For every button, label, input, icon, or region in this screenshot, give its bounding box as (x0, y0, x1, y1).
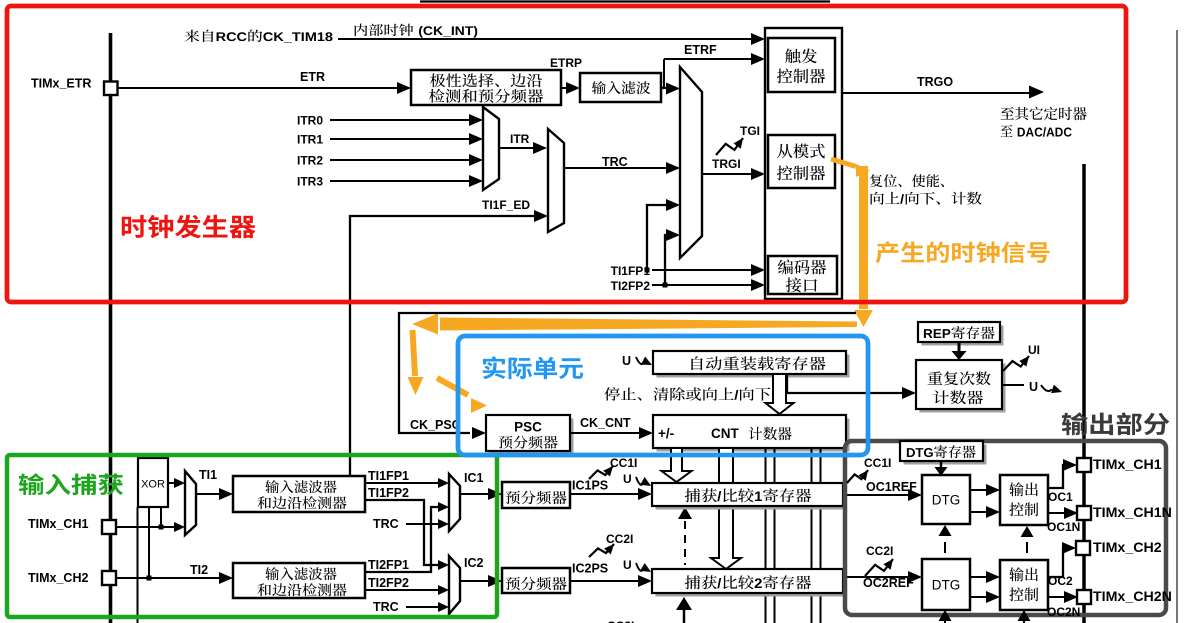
wire TI2FP2 top (652, 284, 753, 286)
box capture/compare 2 (656, 573, 847, 597)
svg-text:OC2REF: OC2REF (863, 576, 914, 590)
box input filter edge detector 2 (233, 563, 365, 598)
wire ETR (117, 87, 399, 89)
hollow bus CNT to capture2 (711, 448, 741, 569)
wire TI1FP1 (365, 482, 438, 484)
text REP register (924, 326, 995, 339)
wire OC2 out (1048, 548, 1066, 577)
blue box actual unit (458, 336, 868, 455)
wire ITR2 (330, 159, 470, 161)
orange arrow down small (413, 330, 416, 376)
box XOR (138, 458, 168, 507)
mux ITR (483, 107, 499, 190)
svg-text:IC1: IC1 (464, 471, 484, 485)
zigzag CC1I right (847, 470, 868, 483)
svg-text:TI2FP2: TI2FP2 (368, 576, 409, 590)
svg-text:OC2N: OC2N (1047, 605, 1080, 619)
wire TI1 (196, 493, 221, 495)
dashed capture arrow cap2 to cap1 (678, 507, 692, 519)
pad TIMx_CH1 right (1077, 458, 1091, 472)
bus B line2 (774, 448, 776, 623)
svg-text:U: U (1029, 380, 1038, 394)
wire CH1 to mux (117, 526, 174, 528)
wire TI1F_ED (350, 216, 535, 477)
wire CK feedback (399, 313, 856, 433)
wire ITR1 (330, 138, 470, 140)
blue label actual unit (483, 356, 583, 379)
orange long arrow left (440, 318, 857, 331)
text encoder l1 (778, 259, 826, 274)
wire ETRP (561, 87, 568, 89)
pad TIMx_CH1N right (1077, 506, 1091, 520)
text outctl1 l1 (1009, 482, 1038, 496)
box CNT counter (657, 419, 850, 452)
wire OC1 out (1048, 465, 1066, 488)
green box input capture (7, 455, 497, 617)
svg-text:TI2FP1: TI2FP1 (368, 558, 409, 572)
svg-text:CC3I: CC3I (607, 619, 634, 623)
svg-text:CC1I: CC1I (864, 456, 891, 470)
label reset enable (870, 174, 944, 187)
orange arrow diag (437, 378, 468, 395)
svg-text:TGI: TGI (740, 124, 760, 138)
text prescaler IC1 (506, 491, 567, 505)
vertical xor input from CH1 (160, 507, 162, 527)
box REP register (922, 326, 1004, 346)
label to DAC/ADC (1001, 125, 1072, 137)
wire TI2 (117, 577, 221, 579)
svg-text:TIMx_CH2: TIMx_CH2 (1093, 540, 1162, 556)
text auto reload register (691, 356, 825, 370)
mux IC2 select (449, 556, 460, 614)
wire IC1PS (570, 493, 639, 495)
zigzag TGI (716, 138, 743, 155)
svg-text:U: U (623, 472, 632, 486)
gray box output section (845, 441, 1166, 615)
svg-text:PSC: PSC (514, 420, 542, 435)
pad TIMx_CH1 left (102, 520, 116, 534)
svg-text:TI1F_ED: TI1F_ED (482, 198, 530, 212)
wire TI1FP2 cross down (365, 500, 440, 565)
dashed arrow into DTG1 bottom (939, 525, 952, 536)
svg-text:ITR0: ITR0 (297, 114, 323, 128)
svg-text:CC2I: CC2I (606, 532, 633, 546)
svg-text:ITR2: ITR2 (297, 154, 323, 168)
bus C line2 (820, 448, 822, 623)
svg-text:IC2: IC2 (464, 556, 484, 570)
wire TRC to IC2 (406, 606, 440, 608)
svg-text:OC1: OC1 (1048, 490, 1073, 504)
text prescaler IC2 (506, 577, 567, 591)
wire TI1FP1 riser (647, 205, 668, 270)
arrow DTG2 to OC2 a (970, 576, 988, 578)
text outctl2 l2 (1009, 587, 1038, 601)
svg-text:TIMx_CH2N: TIMx_CH2N (1093, 589, 1172, 605)
wire CK_CNT (570, 432, 639, 434)
pad TIMx_CH2 left (102, 571, 116, 585)
svg-text:DTG: DTG (932, 493, 961, 508)
red label clock generator (122, 215, 256, 239)
orange label generated clock (876, 241, 1050, 263)
text slave l1 (777, 144, 825, 159)
diagram top border (420, 0, 830, 2)
svg-text:CC1I: CC1I (610, 456, 637, 470)
text polarity line1 (430, 73, 542, 87)
text encoder l2 (786, 277, 817, 292)
box PSC prescaler (490, 419, 574, 455)
wire TRGI (702, 173, 753, 175)
pad TIMx_CH2 right (1076, 541, 1090, 555)
label CK_TIM18 (184, 30, 332, 43)
wire OC2REF (843, 576, 910, 578)
mux IC1 select (449, 474, 460, 531)
text outctl2 l1 (1009, 567, 1038, 581)
arrow DTG1 to OC1 a (970, 489, 988, 491)
label to other timers (1001, 107, 1087, 120)
gray label output section (1062, 412, 1170, 435)
wire TRGO (842, 92, 1030, 94)
svg-text:TRC: TRC (373, 600, 399, 614)
blue box border overlay (458, 336, 868, 455)
box prescaler IC2 (502, 568, 570, 593)
arrow DTG2 to OC2 b (970, 596, 988, 598)
svg-text:CNT: CNT (711, 426, 739, 441)
text filter1 l2 (257, 496, 346, 509)
svg-text:TI1: TI1 (199, 468, 217, 482)
green label input capture (19, 473, 123, 495)
svg-text:TRGI: TRGI (712, 157, 741, 171)
wire TI1FP1 top (652, 269, 753, 271)
svg-text:TI1FP1: TI1FP1 (368, 469, 409, 483)
text input filter (592, 81, 651, 94)
svg-text:TIMx_CH1N: TIMx_CH1N (1093, 505, 1172, 521)
wire IC2PS (570, 580, 639, 582)
box prescaler IC1 (502, 482, 570, 508)
orange arrow from slave ctrl (831, 159, 856, 167)
svg-text:ETR: ETR (300, 70, 325, 84)
svg-text:TIMx_ETR: TIMx_ETR (31, 77, 91, 91)
wire ETRP to mux (664, 87, 668, 89)
mux TRGI (680, 67, 702, 258)
orange arrow down (859, 166, 868, 309)
text polarity line2 (429, 89, 543, 103)
wire IC1 out (460, 493, 490, 495)
svg-text:ITR: ITR (510, 132, 530, 146)
svg-text:ETRP: ETRP (550, 56, 582, 70)
box DTG register (904, 445, 987, 465)
diagram right border (1176, 30, 1178, 623)
wire U out (1002, 384, 1024, 386)
wire ITR0 (330, 119, 470, 121)
svg-text:TI1FP1: TI1FP1 (611, 264, 651, 278)
wire ITR3 (330, 180, 470, 182)
svg-text:TI1FP2: TI1FP2 (368, 486, 409, 500)
wire TI2FP2 (365, 589, 440, 591)
box slave mode controller (768, 135, 835, 188)
pad TIMx_CH2N right (1077, 590, 1091, 604)
svg-text:CK_PSC: CK_PSC (410, 418, 461, 432)
red box border overlay (7, 6, 1126, 302)
zigzag CC2I right (865, 559, 893, 576)
svg-text:+/-: +/- (658, 426, 674, 441)
hollow arrow CNT to capture1 (662, 448, 692, 482)
text DTG register (907, 445, 976, 458)
svg-text:TIMx_CH2: TIMx_CH2 (28, 571, 88, 585)
svg-text:TRGO: TRGO (917, 75, 953, 89)
arrow XOR to mux (168, 482, 174, 484)
wire TI2FP1 cross up (365, 507, 440, 572)
svg-text:IC2PS: IC2PS (572, 562, 608, 576)
svg-text:XOR: XOR (141, 479, 165, 491)
text capture1 (685, 488, 811, 502)
svg-text:TRC: TRC (373, 517, 399, 531)
text trigger ctrl l1 (785, 48, 817, 63)
text outctl1 l2 (1009, 502, 1038, 516)
svg-text:U: U (622, 354, 631, 368)
svg-text:OC2: OC2 (1048, 574, 1073, 588)
wire ETRF riser (661, 87, 664, 89)
vertical xor input from CH2 (148, 507, 150, 578)
svg-text:CC2I: CC2I (866, 544, 893, 558)
label up/down count (871, 192, 982, 205)
arrow into DTG2 bottom (939, 610, 952, 621)
svg-text:U: U (623, 558, 632, 572)
svg-text:IC1PS: IC1PS (572, 479, 608, 493)
box output control 1 (1000, 475, 1048, 525)
hollow arrow ARR to CNT (766, 374, 794, 414)
right bus (1082, 164, 1086, 623)
svg-text:OC1REF: OC1REF (866, 480, 917, 494)
label internal clock (CK_INT) (355, 24, 478, 38)
wire ITR out (499, 147, 534, 149)
box repetition counter (920, 364, 1006, 413)
svg-text:DTG: DTG (932, 578, 961, 593)
zigzag UI (1003, 356, 1029, 371)
box input filter edge detector 1 (233, 476, 365, 512)
svg-text:OC1N: OC1N (1047, 520, 1080, 534)
text trigger ctrl l2 (777, 69, 825, 84)
box input filter (580, 73, 661, 102)
bus C line1 (811, 448, 813, 623)
box encoder interface (768, 256, 837, 294)
bus B line1 (765, 448, 767, 623)
mux TRC (548, 129, 564, 232)
wire ARR to repeat counter (787, 374, 904, 393)
solid arrow up into cap2 (676, 597, 692, 610)
svg-text:ITR3: ITR3 (297, 175, 323, 189)
text filter2 l1 (265, 567, 336, 580)
text capture2 (685, 575, 811, 589)
label stop clear updown (604, 387, 770, 401)
svg-text:TRC: TRC (602, 155, 628, 169)
wire TI2FP2 riser (665, 235, 668, 285)
red box clock generator (7, 6, 1126, 302)
pad TIMx_ETR (104, 82, 118, 96)
text PSC prescaler (499, 436, 558, 449)
svg-text:ETRF: ETRF (684, 43, 717, 57)
left bus (109, 33, 113, 623)
wire TRC to IC1 (406, 523, 440, 525)
wire CK_INT (338, 38, 753, 40)
outer box trigger/slave controller (765, 28, 842, 299)
dashed arrow into OC1 bottom (1021, 526, 1034, 537)
vertical wire to CH3 xor (137, 507, 139, 623)
wire TRC out (564, 167, 667, 169)
text filter2 l2 (257, 583, 346, 596)
text repetition l1 (928, 371, 991, 385)
svg-text:TIMx_CH1: TIMx_CH1 (1093, 457, 1162, 473)
zigzag CC1I left (589, 466, 613, 479)
arrow DTG1 to OC1 b (970, 511, 988, 513)
svg-text:CK_CNT: CK_CNT (580, 416, 631, 430)
svg-text:UI: UI (1028, 343, 1040, 357)
box DTG2 (922, 559, 970, 610)
text repetition l2 (933, 390, 983, 404)
zigzag CC2I left (589, 544, 614, 557)
arrow into OC2 bottom (1018, 610, 1031, 621)
wire OC1REF (843, 494, 910, 496)
arrow DTGreg to DTG1 (940, 461, 943, 467)
arrow REP to counter (958, 342, 961, 351)
box polarity/edge detector/prescaler U1 (411, 70, 561, 105)
box capture/compare 1 (656, 487, 847, 510)
svg-text:TI2: TI2 (190, 563, 208, 577)
wire IC2 out (460, 580, 490, 582)
box output control 2 (1000, 560, 1048, 610)
text slave l2 (777, 166, 825, 181)
svg-text:TI2FP2: TI2FP2 (611, 279, 651, 293)
box ARR (657, 355, 850, 378)
mux TI1 select (185, 471, 196, 535)
text filter1 l1 (265, 480, 336, 493)
box trigger controller (768, 38, 835, 92)
box DTG1 (922, 475, 970, 524)
svg-text:TIMx_CH1: TIMx_CH1 (28, 517, 88, 531)
wire OC1N out (1048, 512, 1066, 514)
wire OC2N out (1048, 596, 1066, 598)
svg-text:ITR1: ITR1 (297, 133, 323, 147)
